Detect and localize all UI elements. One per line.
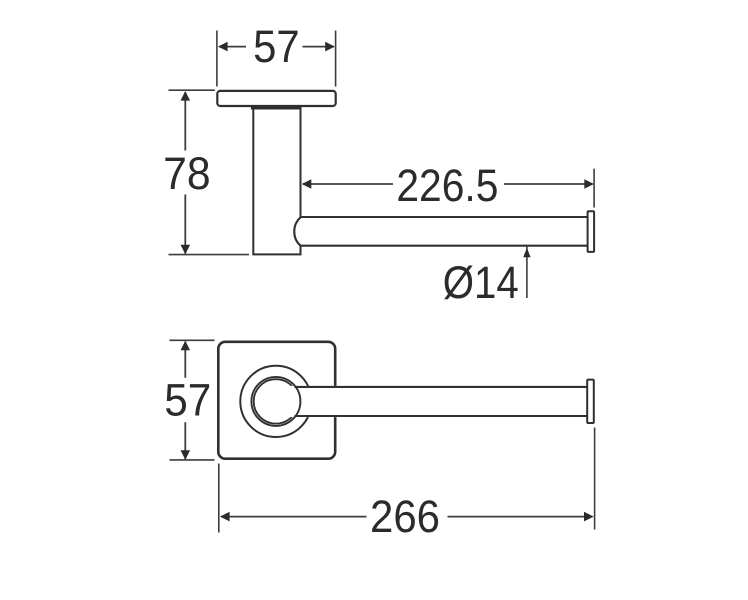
svg-text:78: 78 — [163, 148, 211, 199]
svg-text:266: 266 — [370, 491, 440, 542]
svg-text:57: 57 — [164, 375, 211, 426]
svg-text:Ø14: Ø14 — [443, 257, 519, 308]
svg-text:226.5: 226.5 — [396, 160, 498, 211]
svg-text:57: 57 — [253, 21, 300, 72]
